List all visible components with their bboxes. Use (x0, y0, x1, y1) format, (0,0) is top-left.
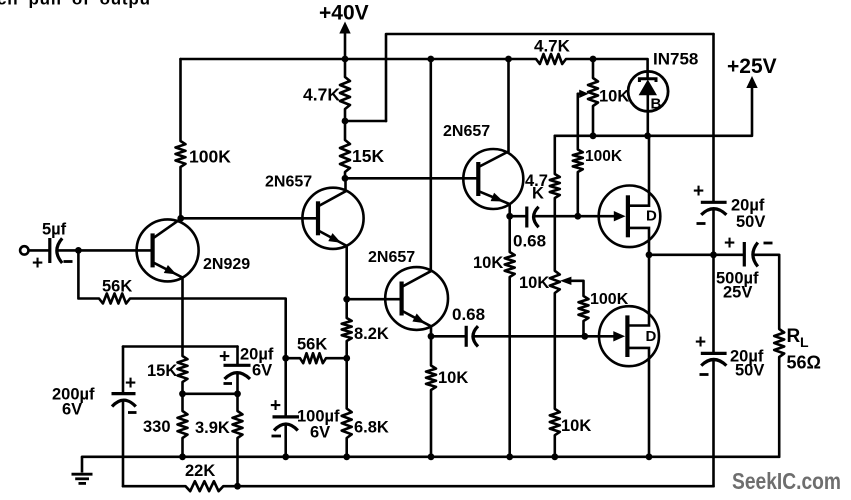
wire Q1 emitter chain with R 15K and R 330 (178, 278, 188, 457)
svg-text:56Ω: 56Ω (787, 353, 821, 373)
svg-text:+: + (724, 233, 735, 254)
node 15K/330 junction (179, 390, 186, 397)
node Q4 emitter / C3 junction (428, 333, 435, 340)
svg-text:15K: 15K (147, 362, 177, 380)
wire C1 to Q1 base (58, 249, 152, 252)
svg-text:B: B (651, 96, 662, 113)
wire ground rail y=456.8 (82, 455, 779, 458)
wire 4.7K/15K junction to upper rail (345, 120, 386, 123)
resistor R 100K (upper wiper) (573, 94, 583, 216)
wire Q2 base (181, 217, 318, 220)
potentiometer 10K (upper) (588, 59, 598, 136)
svg-text:2N929: 2N929 (203, 256, 250, 273)
node 4.7K/15K junction (342, 118, 349, 125)
svg-text:3.9K: 3.9K (195, 419, 230, 437)
label minus 20uf upper (697, 222, 706, 225)
svg-text:10K: 10K (473, 254, 503, 272)
node 330 bottom (179, 453, 186, 460)
wire upper feedback rail (y=34) (386, 34, 714, 121)
wire Q4 base (347, 298, 402, 301)
svg-text:2N657: 2N657 (265, 174, 312, 191)
svg-text:20µf: 20µf (731, 197, 765, 215)
svg-text:K: K (532, 185, 544, 203)
node 22K / 3.9K junction (234, 483, 241, 490)
svg-text:6V: 6V (252, 362, 272, 380)
svg-text:+40V: +40V (319, 2, 369, 25)
svg-text:+: + (693, 181, 704, 202)
node 100uf bottom (282, 453, 289, 460)
svg-text:+25V: +25V (727, 55, 777, 78)
label minus 20uf lower (700, 373, 709, 376)
capacitor C 500uf 25V (743, 242, 746, 267)
svg-text:2N657: 2N657 (443, 123, 490, 140)
svg-text:R: R (787, 326, 801, 347)
svg-text:+: + (32, 253, 43, 274)
wire Q3 emitter chain with R 10K (505, 204, 515, 457)
wire bottom rail with R 22K (123, 481, 714, 491)
svg-text:100K: 100K (585, 148, 623, 165)
resistor R 56K (input) (78, 250, 285, 416)
svg-text:+: + (270, 396, 281, 417)
wire +25V/output vertical x=713.5 (712, 34, 715, 201)
transistor Q3 2N657 (upper) (463, 149, 523, 209)
capacitor C4 0.68 (upper) (510, 215, 526, 218)
node M1 source / M2 drain (646, 251, 653, 258)
svg-text:15K: 15K (352, 146, 384, 166)
node Q2 emitter / Q4 base (343, 296, 350, 303)
+40V supply arrow (344, 32, 347, 59)
svg-text:6V: 6V (310, 424, 330, 442)
wire Q2 emitter chain with R 8.2K and R 6.8K (342, 246, 352, 457)
node output/caps junction (710, 251, 717, 258)
svg-text:8.2K: 8.2K (354, 325, 389, 343)
svg-text:10K: 10K (561, 417, 591, 435)
svg-text:6.8K: 6.8K (354, 419, 389, 437)
+25V supply arrow (746, 76, 757, 88)
svg-text:SeekIC.com: SeekIC.com (732, 468, 841, 494)
node Q3 collector on rail (505, 56, 512, 63)
label C1 minus (64, 260, 73, 263)
node 100K bottom / gate1 (574, 213, 581, 220)
svg-text:10K: 10K (599, 88, 629, 106)
capacitor C 100uf 6V (273, 415, 300, 418)
node 10K pot chain bottom (551, 453, 558, 460)
node 100K2 bottom / gate2 (581, 333, 588, 340)
wire Q4 emitter chain with R 10K (426, 326, 436, 457)
node 6.8K bottom (343, 453, 350, 460)
transistor Q4 2N657 (middle) (385, 267, 448, 330)
svg-text:100K: 100K (590, 291, 629, 308)
svg-text:D: D (646, 328, 657, 345)
node 10K Q3 bottom (506, 453, 513, 460)
wire output line y=254.8 (649, 254, 743, 257)
svg-text:56K: 56K (102, 278, 132, 296)
node zener bottom (644, 132, 651, 139)
transistor Q2 2N657 (302, 188, 363, 249)
mosfet M1 (upper, D) (599, 186, 661, 248)
capacitor C 20uf 50V (lower) (701, 352, 727, 355)
node 56K2 left end (282, 355, 289, 362)
node Q4 collector on rail (427, 56, 434, 63)
mosfet M2 (lower, D) (599, 306, 659, 366)
svg-text:+: + (125, 373, 136, 394)
wire input to C1 (29, 249, 49, 252)
label minus 200uf (128, 411, 137, 414)
svg-text:2N657: 2N657 (368, 249, 415, 266)
zener diode D1 1N758 (628, 71, 668, 111)
label minus 500uf (764, 242, 773, 245)
node 8.2K/6.8K/56K junction (343, 355, 350, 362)
node 20uf bottom (234, 390, 241, 397)
svg-text:D: D (646, 208, 657, 225)
capacitor C3 0.68 (lower) (431, 335, 465, 338)
svg-text:50V: 50V (735, 362, 764, 380)
capacitor C 20uf 50V (upper) (701, 201, 727, 204)
svg-text:0.68: 0.68 (452, 305, 485, 324)
node pot1 top (590, 56, 597, 63)
svg-text:4.7K: 4.7K (534, 37, 571, 56)
node 10K Q4 bottom (428, 453, 435, 460)
svg-text:IN758: IN758 (653, 50, 698, 69)
wire Q2 collector to Q3 base (345, 177, 478, 180)
ground symbol (81, 457, 84, 473)
pot2 wiper arrow (572, 281, 589, 337)
svg-text:56K: 56K (297, 336, 327, 354)
resistor R 100K (Q1 collector load) (176, 59, 186, 218)
svg-text:6V: 6V (62, 401, 82, 419)
resistor R 4.7K and R 15K (Q2 collector chain) (340, 59, 350, 178)
node 15K/Q2 collector (342, 175, 349, 182)
svg-text:10K: 10K (519, 274, 549, 292)
svg-text:0.68: 0.68 (513, 232, 546, 251)
node pot1 bottom (590, 132, 597, 139)
resistor R 56K (second) (286, 353, 347, 363)
capacitor C1 5uf (48, 238, 51, 263)
label minus 20uf6V (224, 382, 233, 385)
node input base junction (75, 247, 82, 254)
svg-text:25V: 25V (723, 284, 752, 302)
svg-text:50V: 50V (736, 213, 765, 231)
svg-text:330: 330 (143, 418, 171, 436)
svg-text:+: + (219, 347, 230, 368)
wire 500uf to RL with resistor RL (754, 255, 785, 457)
node Q3 emitter / C4 junction (506, 213, 513, 220)
svg-text:10K: 10K (438, 369, 468, 387)
wire main +40V rail (y=59) with corner to zener (181, 54, 648, 72)
node rail/+40V (342, 56, 349, 63)
capacitor C 200uf 6V (122, 347, 125, 393)
resistor chain R 4.7K, pot 10K, R 10K (x=555) (550, 136, 560, 457)
svg-text:L: L (800, 334, 809, 350)
wire 200uf top corner (123, 345, 238, 348)
svg-text:4.7K: 4.7K (303, 85, 340, 105)
capacitor C 20uf 6V with R 3.9K below (236, 347, 239, 364)
svg-text:ch pull of outpu: ch pull of outpu (0, 0, 151, 9)
node Q1 collector / 100K / Q2 base (177, 215, 184, 222)
node M2 source on rail (646, 453, 653, 460)
wire 15K-20uf bottom link (183, 392, 238, 395)
wire bias line y=135.8 to +25V corner (555, 87, 752, 136)
svg-text:5µf: 5µf (42, 221, 67, 239)
label minus 100uf (272, 435, 282, 438)
transistor Q1 2N929 (137, 219, 199, 281)
input terminal (20, 246, 28, 254)
svg-text:22K: 22K (185, 462, 215, 480)
svg-text:+: + (695, 332, 706, 353)
svg-text:100K: 100K (189, 147, 231, 167)
